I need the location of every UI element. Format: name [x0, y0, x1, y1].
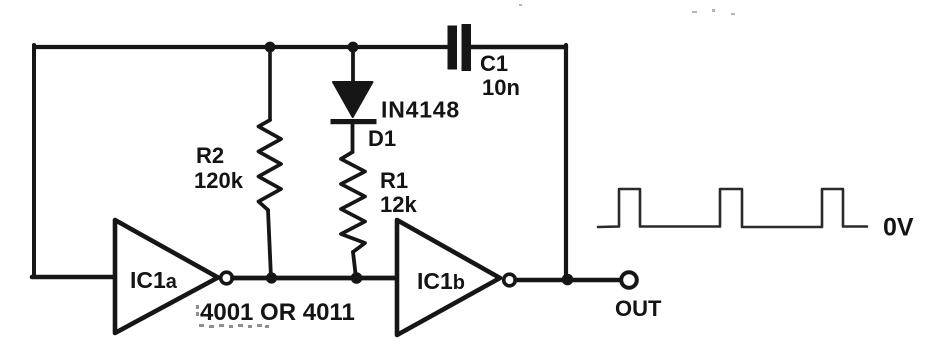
wire right vertical [564, 45, 568, 280]
resistor R1 [341, 152, 365, 252]
svg-text:IC1a: IC1a [130, 267, 178, 293]
svg-text:10n: 10n [482, 75, 520, 100]
svg-text:C1: C1 [480, 51, 508, 76]
op-amp inverter IC1b [397, 220, 500, 335]
svg-text:120k: 120k [194, 168, 244, 193]
svg-text:12k: 12k [380, 192, 417, 217]
wire IC1a input [32, 275, 115, 280]
op-amp inverter IC1a [115, 220, 218, 333]
wire IC1a output to IC1b input [233, 276, 398, 281]
diode D1 [333, 82, 373, 117]
terminal OUT [621, 272, 637, 288]
svg-text:R2: R2 [196, 143, 224, 168]
svg-text:OUT: OUT [615, 296, 662, 321]
inverter bubble IC1a [221, 272, 233, 284]
svg-text:IC1b: IC1b [417, 268, 465, 294]
wire R2 bottom lead [268, 210, 271, 278]
node junction R2 bottom [266, 272, 277, 283]
svg-text:4001 OR 4011: 4001 OR 4011 [200, 299, 355, 326]
waveform output pulses [598, 189, 867, 227]
faint specks top [519, 4, 735, 15]
wire top rail [34, 45, 448, 49]
wire D1 anode lead [351, 47, 355, 84]
capacitor C1 [448, 24, 472, 71]
wire left vertical [32, 45, 36, 277]
resistor R2 [259, 120, 282, 210]
wire R1 bottom lead [353, 252, 356, 278]
inverter bubble IC1b [504, 274, 516, 286]
svg-text:0V: 0V [883, 214, 914, 242]
wire R2 top lead [268, 47, 272, 120]
svg-text:R1: R1 [380, 168, 408, 193]
node junction D1 top [348, 42, 359, 53]
node junction output [562, 274, 574, 286]
faint erased text remnant [196, 305, 269, 328]
node junction R1 bottom [351, 272, 363, 284]
svg-text:IN4148: IN4148 [381, 97, 460, 123]
wire D1 cathode lead [351, 124, 355, 152]
wire cap to right corner [471, 45, 566, 49]
svg-text:D1: D1 [368, 126, 396, 151]
wire IC1b output [516, 278, 621, 283]
node junction R2 top [265, 42, 276, 53]
